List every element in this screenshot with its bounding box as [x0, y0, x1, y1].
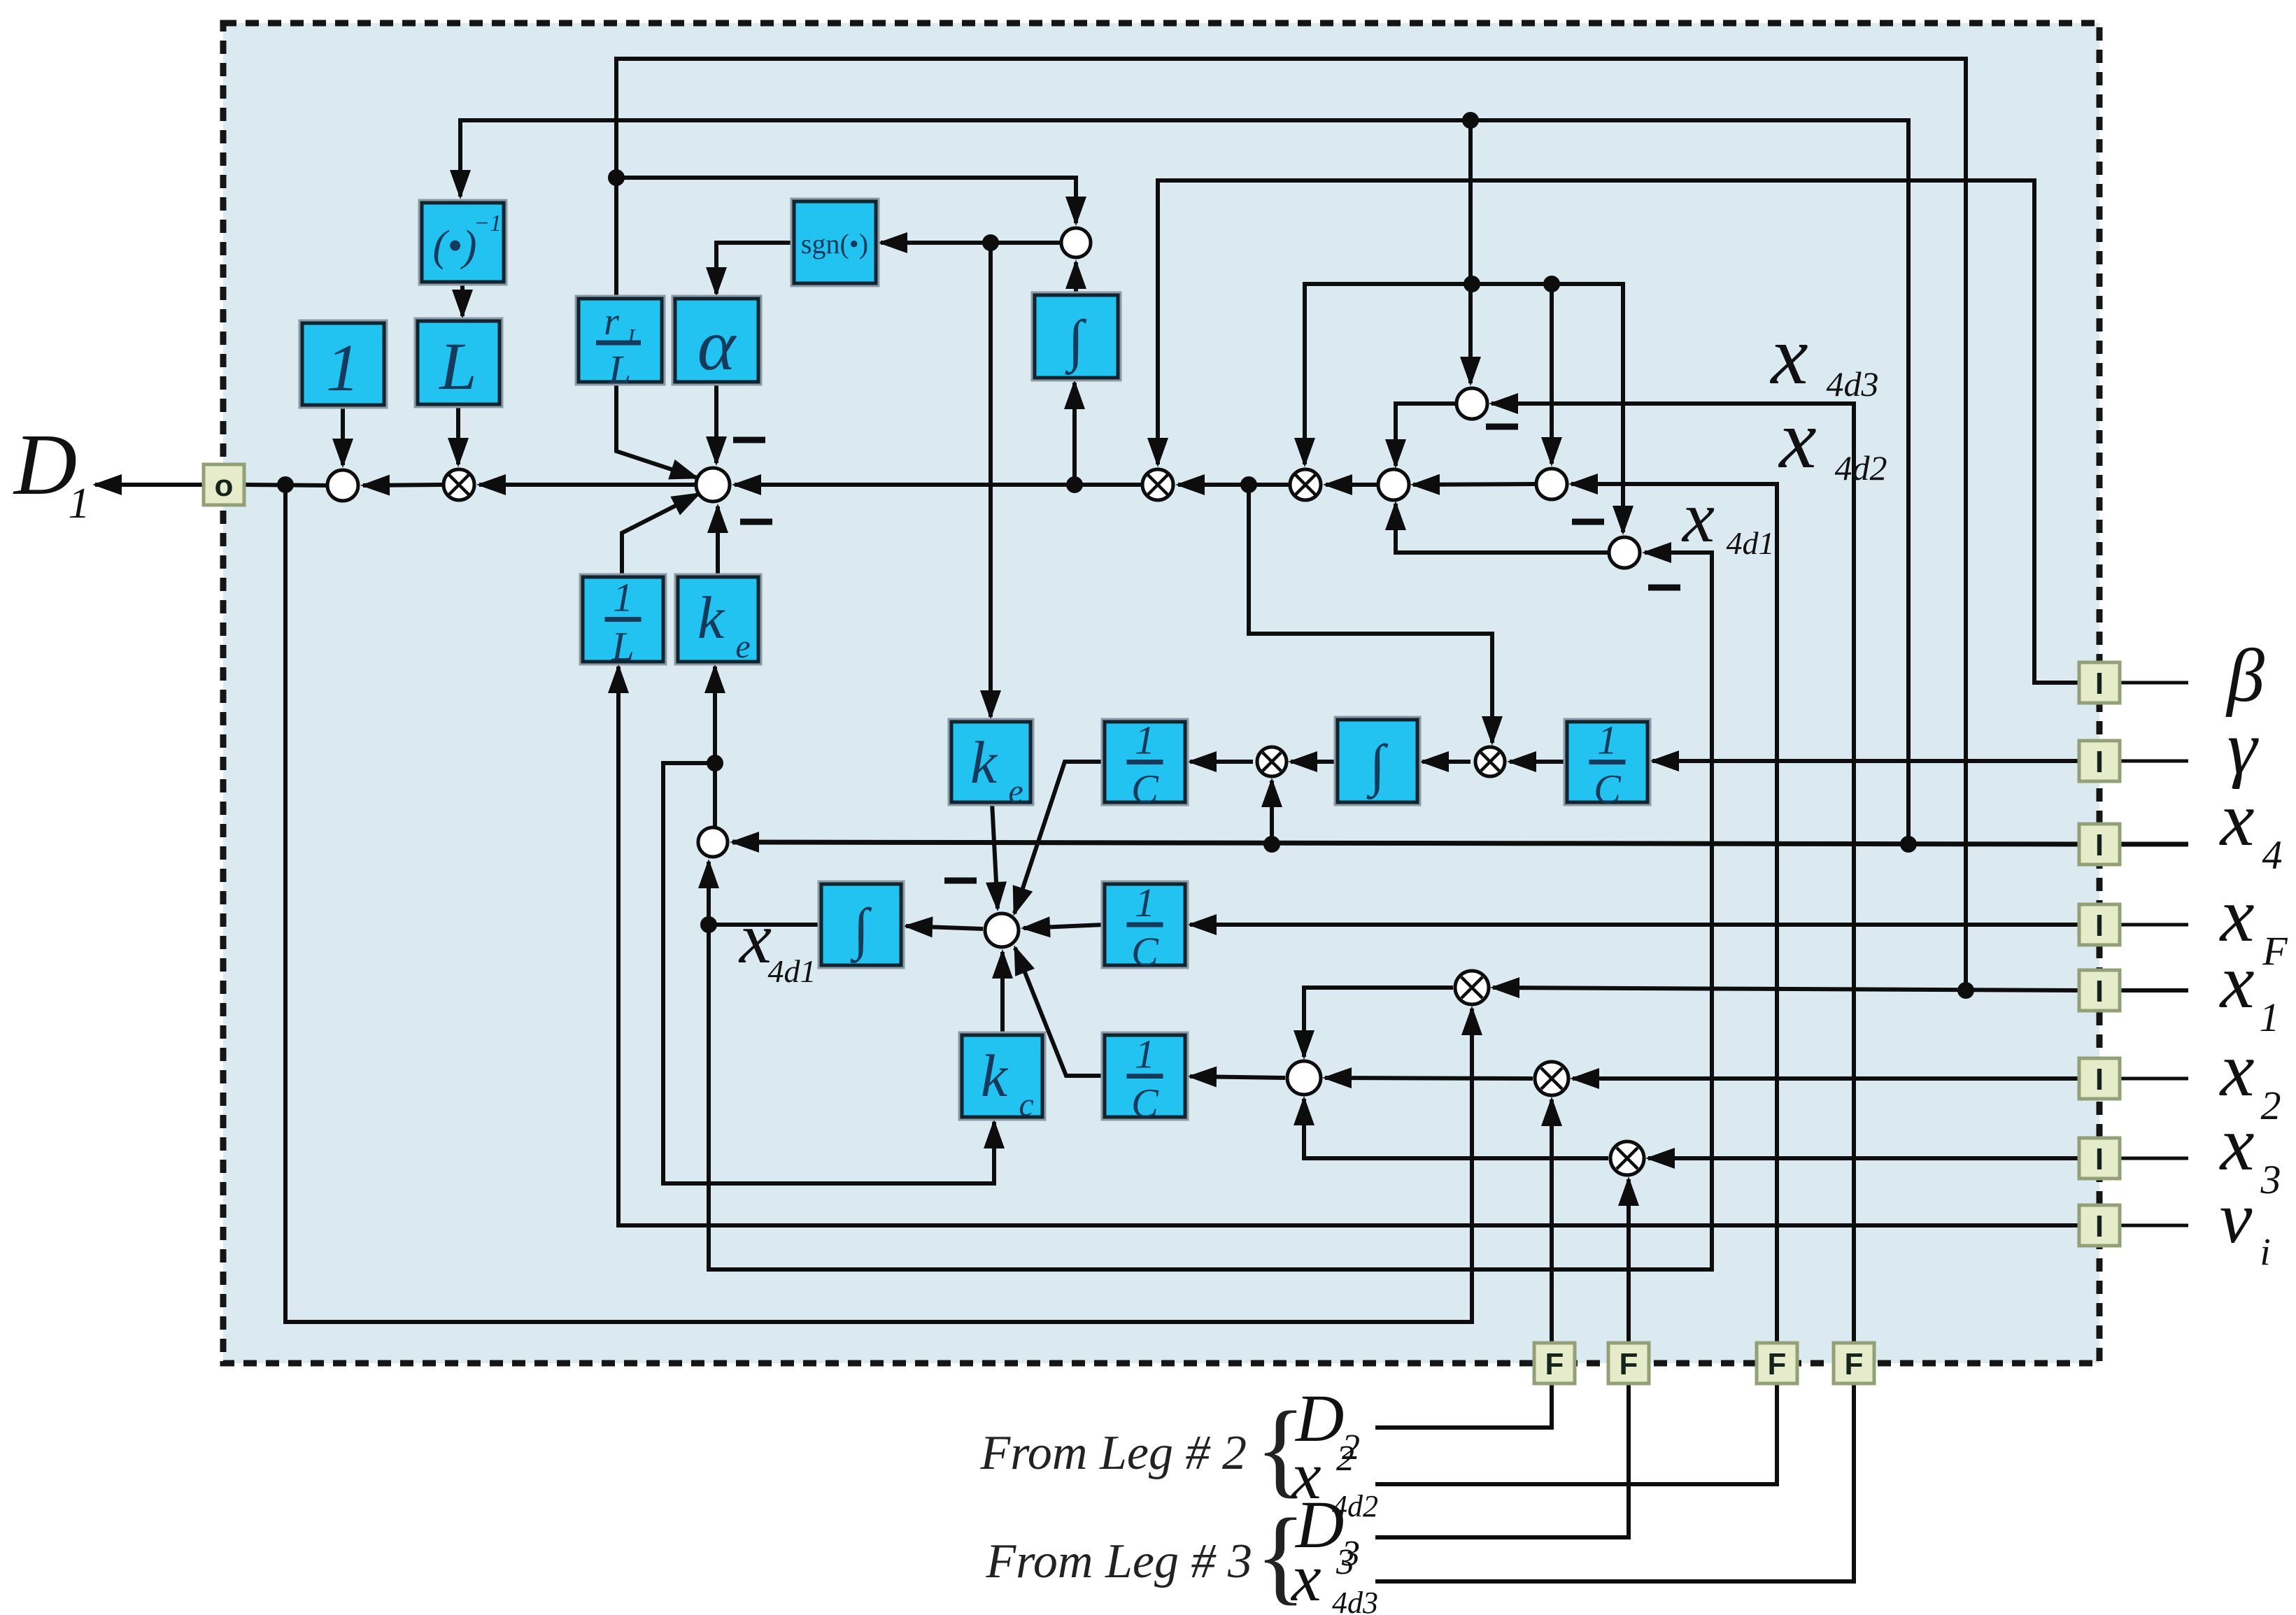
svg-text:C: C — [1131, 1081, 1159, 1126]
wire x4 input line into s_x4 circle — [732, 842, 2081, 844]
wire x1 feedback: x1 line up right side, across top, down through rL/L into main sum — [616, 59, 1966, 990]
wire x3 port stub — [2120, 1157, 2188, 1160]
wire branch y=172 down to x4d3 sum — [1468, 120, 1473, 383]
block integrator (mid left) — [819, 882, 903, 967]
wire x4d1 feedback: down, right along bottom, up right side into x4d1 sum — [709, 553, 1712, 1269]
port I beta — [2079, 662, 2120, 703]
wire gamma input into 1/C (right) — [1652, 759, 2081, 763]
wire x1 input into multiplier m_x1 — [1493, 988, 2081, 990]
node main line to m_g2 junction — [1240, 476, 1257, 493]
wire central sum output into integrator (mid left) — [906, 926, 983, 929]
node k_e feed junction — [707, 755, 723, 771]
port O (output D1) — [204, 464, 244, 505]
label vi input — [2220, 1176, 2271, 1273]
block gain k_c — [960, 1033, 1044, 1123]
wire xF port stub — [2120, 923, 2188, 927]
port I vi — [2079, 1205, 2120, 1246]
wire x2 input into multiplier m_x2 — [1573, 1076, 2081, 1081]
svg-text:x: x — [2219, 939, 2255, 1024]
minus sign at central sum (k_e input) — [944, 878, 977, 884]
wire sgn output down into alpha — [716, 243, 794, 294]
wire k_e(left) output into main sum — [716, 506, 720, 577]
wire x1 port stub — [2120, 988, 2188, 993]
block gain r_L/L — [576, 297, 664, 392]
label gamma — [2227, 706, 2259, 790]
summing junction x4d1 sum — [1609, 537, 1640, 568]
label x4d2 node — [1778, 392, 1887, 488]
node main line to integrator junction — [1066, 476, 1083, 493]
wire x4 junction up into m_g1 — [1270, 781, 1274, 844]
svg-text:x: x — [2219, 776, 2255, 862]
svg-text:∫: ∫ — [850, 897, 872, 963]
port F D3 — [1608, 1343, 1649, 1383]
minus sign at main sum (k_e input) — [740, 519, 772, 525]
svg-text:F: F — [1768, 1347, 1787, 1381]
wire output sum to O port — [243, 485, 327, 485]
svg-text:I: I — [2095, 1142, 2104, 1176]
svg-text:(•): (•) — [433, 222, 477, 270]
summing junction main sum — [696, 468, 730, 501]
svg-text:4d1: 4d1 — [1727, 525, 1775, 561]
wire 1/C(mid) output into central sum — [1023, 925, 1105, 928]
node D1 output junction — [277, 476, 294, 493]
svg-text:e: e — [1008, 773, 1023, 810]
block integrator (top) — [1033, 293, 1120, 380]
multiplier m_x1 — [1455, 971, 1489, 1004]
wire x4d1 sum output up into s_4d — [1396, 504, 1608, 553]
wire m_x4d to m_beta — [1178, 483, 1289, 487]
svg-text:sgn(•): sgn(•) — [801, 228, 868, 259]
block gain 1/C (bottom) — [1103, 1032, 1187, 1126]
wire 1/C(right) to multiplier m_g2 — [1510, 760, 1567, 764]
svg-text:4d3: 4d3 — [1332, 1586, 1378, 1615]
summing junction s_4d — [1378, 469, 1409, 500]
block gain 1/C (mid) — [1103, 880, 1187, 974]
svg-text:e: e — [735, 628, 750, 665]
label From Leg #2 — [980, 1381, 1378, 1523]
wire (.)^-1 output into L — [460, 282, 465, 316]
wire m_g2 to integrator (mid right) — [1422, 760, 1471, 764]
wire m_beta to main sum — [735, 483, 1142, 487]
wire branch to k_c: left, down, right, up into k_c — [663, 763, 994, 1183]
block gain 1/C (top) — [1103, 718, 1187, 812]
summing junction central sum — [985, 913, 1019, 947]
svg-text:F: F — [1545, 1347, 1564, 1381]
multiplier m_L — [444, 469, 474, 500]
svg-text:I: I — [2095, 974, 2104, 1009]
svg-text:r: r — [604, 300, 619, 343]
wire x4d1 junction up into s_x4 circle — [707, 862, 711, 925]
svg-text:F: F — [1620, 1347, 1638, 1381]
node y172 junction — [1462, 112, 1479, 129]
svg-text:C: C — [1131, 929, 1159, 974]
label x4 input — [2219, 776, 2283, 878]
label x4d1 signal (left) — [738, 898, 816, 989]
block gain k_e (center) — [949, 720, 1033, 810]
wire k_e(center) output down into central sum — [992, 802, 998, 909]
svg-text:C: C — [1131, 767, 1159, 812]
block gain 1/L — [581, 575, 665, 669]
svg-text:i: i — [2260, 1230, 2270, 1273]
summing junction x4d3 sum — [1457, 388, 1487, 419]
svg-text:v: v — [2220, 1176, 2253, 1258]
wire m_x2 output into bottom sum — [1325, 1078, 1533, 1079]
multiplier m_x3 — [1610, 1141, 1644, 1175]
wire beta port stub — [2120, 681, 2188, 685]
wire block 1 output into output sum — [341, 405, 345, 465]
wire m_x3 output left and up into bottom sum — [1304, 1099, 1608, 1158]
wire integrator x4d1 output to junction — [709, 923, 821, 927]
svg-text:L: L — [627, 324, 640, 349]
block gain k_e (left) — [676, 575, 760, 665]
wire D1 output arrow — [95, 483, 206, 487]
block integrator (mid right) — [1335, 718, 1419, 804]
wire D3 from Leg 3 up through F port into m_x3 — [1375, 1179, 1629, 1537]
controller subsystem panel (dashed boundary) — [223, 23, 2099, 1363]
svg-text:4d1: 4d1 — [768, 953, 816, 989]
wire gamma port stub — [2120, 760, 2188, 763]
node sgn line junction — [982, 234, 999, 251]
wire x3 input into multiplier m_x3 — [1648, 1156, 2081, 1160]
wire alpha output into main sum — [714, 382, 718, 463]
multiplier m_g1 (x4 product) — [1257, 747, 1287, 776]
svg-text:4d2: 4d2 — [1835, 448, 1887, 488]
wire x4d3 from Leg 3 up right side into x4d3 sum — [1375, 404, 1854, 1581]
wire x4d2 sum output into s_4d — [1413, 484, 1535, 485]
svg-text:I: I — [2095, 1209, 2104, 1244]
node x1 line junction right — [1957, 982, 1974, 999]
svg-text:L: L — [611, 624, 634, 669]
minus sign at x4d2 sum — [1572, 519, 1604, 525]
svg-text:β: β — [2225, 634, 2265, 718]
wire branch y=406 right down into x4d1 sum — [1472, 284, 1623, 532]
wire sgn-sum output into sgn block — [881, 241, 1060, 245]
svg-text:D: D — [13, 417, 77, 513]
wire s_x4 circle up into k_e(left) — [713, 667, 717, 827]
svg-text:From Leg # 3: From Leg # 3 — [986, 1535, 1252, 1588]
summing junction output sum — [327, 470, 358, 501]
svg-text:I: I — [2095, 909, 2104, 943]
svg-text:L: L — [438, 329, 476, 404]
port F D2 — [1534, 1343, 1575, 1383]
svg-text:k: k — [697, 584, 725, 651]
svg-text:3: 3 — [2260, 1157, 2281, 1202]
svg-text:L: L — [608, 347, 631, 392]
multiplier m_g2 (gamma product) — [1475, 747, 1505, 776]
svg-text:C: C — [1594, 767, 1622, 812]
block gain 1 — [300, 321, 386, 407]
node x1/top junction — [608, 169, 625, 186]
minus sign at main sum (alpha input) — [733, 437, 765, 443]
wire vi port stub — [2120, 1224, 2188, 1228]
multiplier m_x2 — [1535, 1062, 1568, 1095]
svg-text:4: 4 — [2262, 832, 2283, 878]
label x3 input — [2219, 1101, 2281, 1202]
block (.)^-1 inverse — [420, 201, 506, 284]
multiplier m_x4d — [1290, 469, 1321, 500]
wire 1/C(top) diagonal output into central sum — [1014, 762, 1105, 913]
port I x4 — [2079, 824, 2120, 865]
wire m_L to output sum — [363, 485, 443, 485]
wire main sum to multiplier m_L — [479, 483, 695, 487]
wire main line up into top integrator — [1072, 383, 1077, 485]
node x4d1 junction — [700, 916, 717, 933]
minus sign at x4d1 sum — [1648, 585, 1680, 591]
label xF input — [2219, 872, 2288, 974]
wire 1/C(bottom) diagonal output into central sum — [1015, 948, 1105, 1076]
node x4 line junction at m_g1 — [1263, 836, 1280, 853]
wire bottom sum output into 1/C (bottom) — [1190, 1076, 1285, 1078]
wire D2 from Leg 2 up through F port into m_x2 — [1375, 1100, 1552, 1428]
summing junction bottom sum — [1287, 1061, 1321, 1095]
svg-text:−1: −1 — [474, 211, 502, 236]
port I gamma — [2079, 741, 2120, 781]
wire branch y=406 down into x4d2 sum — [1550, 284, 1554, 464]
svg-text:x: x — [1290, 1540, 1321, 1615]
port I xF — [2079, 904, 2120, 945]
label beta — [2225, 634, 2265, 718]
svg-text:x: x — [1778, 392, 1816, 485]
port I x3 — [2079, 1138, 2120, 1179]
node y406 junction a — [1464, 276, 1480, 292]
label x4d1 node (right) — [1681, 477, 1775, 561]
svg-text:2: 2 — [2261, 1083, 2281, 1128]
svg-text:I: I — [2095, 1062, 2104, 1097]
wire x2 port stub — [2120, 1077, 2188, 1081]
port F x4d3 — [1834, 1343, 1874, 1383]
svg-text:F: F — [1845, 1347, 1864, 1381]
svg-text:1: 1 — [326, 330, 360, 405]
wire block L output into multiplier m_L — [456, 404, 460, 464]
label x4d3 node — [1769, 308, 1878, 404]
wire branch y=406 left down into multiplier m_x4d — [1305, 284, 1472, 464]
wire m_g1 to 1/C (top) — [1190, 760, 1253, 764]
svg-text:From Leg # 2: From Leg # 2 — [980, 1426, 1247, 1480]
svg-text:4d3: 4d3 — [1827, 364, 1879, 404]
summing junction s_x4 — [698, 827, 728, 857]
svg-text:I: I — [2095, 667, 2104, 701]
wire beta input: from beta port up and across, down into multiplier m_beta — [1158, 180, 2081, 683]
label x2 input — [2219, 1027, 2281, 1128]
svg-text:3: 3 — [1335, 1542, 1354, 1582]
svg-text:∫: ∫ — [1065, 308, 1087, 375]
block gain 1/C (right) — [1565, 718, 1650, 812]
svg-text:x: x — [738, 898, 772, 979]
wire v_i input: from port left then up into 1/L — [618, 667, 2081, 1225]
wire m_x1 output left and down into bottom sum — [1304, 988, 1453, 1057]
node y406 junction b — [1543, 276, 1560, 292]
svg-text:1: 1 — [69, 480, 90, 527]
svg-text:o: o — [215, 469, 234, 503]
svg-text:x: x — [1769, 308, 1808, 401]
svg-text:1: 1 — [2260, 995, 2280, 1040]
block gain L — [416, 319, 502, 406]
svg-text:x: x — [2219, 1101, 2255, 1186]
wire integrator to multiplier m_g1 — [1291, 760, 1338, 764]
label From Leg #3 — [986, 1487, 1378, 1615]
minus sign at x4d3 sum — [1486, 424, 1518, 430]
svg-text:k: k — [981, 1042, 1009, 1109]
svg-text:c: c — [1019, 1086, 1033, 1123]
svg-text:1: 1 — [1597, 718, 1617, 763]
label x1 input — [2219, 939, 2280, 1040]
wire x4 feedback: x4 line up at x=2728, across y=172, down into (.)^-1 — [460, 120, 1908, 844]
port I x2 — [2079, 1058, 2120, 1099]
svg-text:1: 1 — [613, 575, 633, 620]
summing junction x4d2 sum — [1536, 469, 1567, 499]
wire top integrator to sgn-sum — [1074, 262, 1078, 295]
wire sgn junction down into k_e (center) — [988, 243, 993, 717]
svg-text:2: 2 — [1336, 1439, 1354, 1479]
svg-text:x: x — [2219, 1027, 2255, 1112]
wire sum s_4d to multiplier m_x4d — [1326, 483, 1377, 487]
label D1 output — [13, 417, 90, 527]
wire x4 port stub — [2120, 842, 2188, 847]
svg-text:k: k — [970, 729, 998, 796]
svg-text:I: I — [2095, 745, 2104, 779]
wire x4d3 sum output down into s_4d — [1396, 404, 1457, 466]
block sgn(.) sign function — [792, 199, 878, 285]
svg-text:α: α — [697, 305, 737, 385]
wire k_c output up into central sum — [1000, 952, 1005, 1035]
block gain alpha — [673, 297, 760, 385]
svg-text:I: I — [2095, 828, 2104, 862]
svg-text:∫: ∫ — [1366, 733, 1389, 799]
wire x_F input into 1/C (mid) — [1190, 923, 2081, 927]
port F x4d2 — [1757, 1343, 1797, 1383]
svg-text:F: F — [2262, 928, 2288, 974]
port I x1 — [2079, 970, 2120, 1011]
wire 1/L output diagonal into main sum — [622, 494, 699, 577]
wire branch to sgn-sum from x1 junction — [616, 178, 1076, 223]
wire D1 feedback: down left side, along bottom, up into m_x1 — [285, 485, 1472, 1322]
wire main-line junction down across into m_g2 top — [1249, 485, 1492, 743]
summing junction sgn-sum — [1061, 228, 1091, 257]
node x4 line junction right — [1900, 836, 1917, 853]
svg-text:x: x — [1681, 477, 1715, 557]
svg-text:1: 1 — [1135, 1032, 1155, 1077]
multiplier m_beta — [1142, 469, 1173, 500]
wire x4d2 from Leg 2 up right side into x4d2 sum — [1375, 484, 1777, 1484]
svg-text:1: 1 — [1135, 718, 1155, 763]
svg-text:1: 1 — [1135, 880, 1155, 925]
